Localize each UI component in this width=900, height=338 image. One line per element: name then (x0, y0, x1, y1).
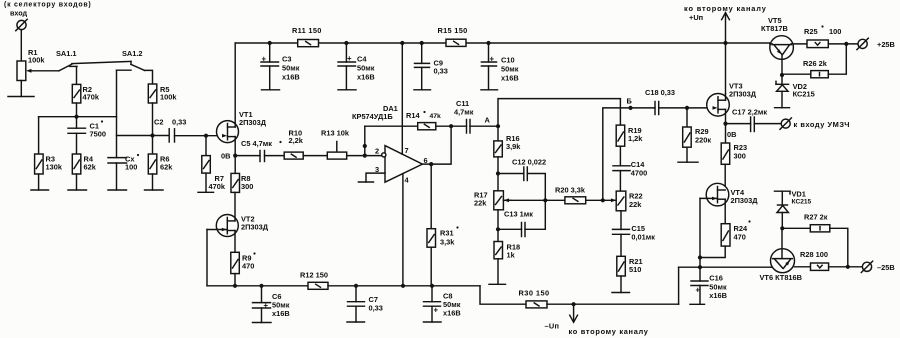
capacitor C6 50мк x16В (253, 286, 290, 323)
capacitor C10 50мк x16В (481, 43, 518, 90)
bus1 wire (39, 116, 117, 118)
svg-text:47k: 47k (430, 113, 442, 120)
svg-text:4,7мк: 4,7мк (454, 108, 474, 117)
ground below R6 (152, 174, 154, 190)
svg-text:0,01мк: 0,01мк (631, 233, 655, 242)
capacitor C11 4.7мк (451, 99, 498, 133)
svg-text:SA1.2: SA1.2 (122, 49, 143, 58)
svg-text:2П303Д: 2П303Д (239, 118, 267, 127)
wire pin3 to ground (366, 173, 385, 182)
svg-text:300: 300 (734, 152, 746, 161)
svg-text:3,9k: 3,9k (506, 142, 521, 151)
svg-text:C17 2,2мк: C17 2,2мк (732, 108, 767, 117)
svg-text:100: 100 (125, 163, 137, 172)
bus2 wire (117, 135, 169, 137)
ground above VD1 (775, 191, 791, 194)
svg-text:R25: R25 (804, 27, 818, 36)
wire SA1.1 contact to R2 (76, 66, 78, 84)
svg-text:к входу УМЗЧ: к входу УМЗЧ (794, 120, 850, 129)
lower rail step to -Uп (480, 286, 526, 304)
svg-text:22k: 22k (474, 199, 487, 208)
svg-text:C16: C16 (709, 274, 723, 283)
capacitor C18 0.33 (645, 88, 675, 115)
svg-text:х16В: х16В (282, 73, 300, 82)
capacitor C2 0.33 (154, 118, 186, 143)
capacitor C9 0.33 (415, 43, 448, 90)
capacitor C16 50мк x16В (691, 267, 727, 304)
svg-text:220к: 220к (695, 136, 711, 145)
resistor R2 470k (72, 84, 100, 103)
svg-text:62k: 62k (84, 163, 97, 172)
wiper line to R20 (509, 199, 565, 201)
svg-text:50мк: 50мк (282, 64, 300, 73)
svg-text:1,2k: 1,2k (628, 134, 643, 143)
svg-text:62k: 62k (160, 163, 173, 172)
op-amp DA1 КР574УД1Б (352, 104, 422, 182)
svg-text:470: 470 (242, 262, 254, 271)
capacitor C17 2.2мк (726, 108, 782, 132)
wire SA1.2 contact to R5 (145, 70, 153, 84)
wire R24 to rail stub (700, 246, 725, 257)
svg-text:100k: 100k (160, 93, 177, 102)
terminal +25В (857, 38, 895, 49)
svg-text:R31: R31 (440, 229, 454, 238)
svg-text:VT6 КТ816В: VT6 КТ816В (760, 273, 803, 282)
transistor VT5 КТ817В (761, 16, 807, 75)
resistor R12 150 (300, 271, 328, 290)
ground below C10 (481, 89, 498, 91)
wire R5 to bus2 (152, 103, 154, 136)
svg-text:+: + (434, 306, 439, 315)
arrow up to second channel / wire VT3 drain (722, 13, 730, 94)
resistor R26 2k (803, 59, 828, 78)
ground below C9 (414, 89, 431, 91)
svg-text:100k: 100k (28, 56, 45, 65)
capacitor C3 50мк x16В (261, 43, 300, 90)
junction R17/C13/R18 (497, 210, 499, 242)
svg-text:510: 510 (629, 265, 641, 274)
ground below R4 (76, 174, 78, 190)
transistor VT1 2П303Д (JFET) (217, 43, 267, 156)
capacitor C7 0.33 (348, 286, 383, 322)
svg-text:2П303Д: 2П303Д (241, 223, 269, 232)
svg-text:+: + (264, 301, 269, 310)
ground below C8 (424, 321, 442, 323)
transistor VT2 2П303Д (JFET) (207, 192, 269, 252)
node VD1/R27/VT6 base (780, 226, 784, 230)
svg-text:0,33: 0,33 (369, 304, 383, 313)
svg-text:0В: 0В (221, 152, 230, 161)
junction R16/R17/C12 (497, 157, 499, 191)
svg-text:ко второму каналу: ко второму каналу (569, 327, 649, 336)
svg-text:2,2k: 2,2k (289, 136, 304, 145)
top rail wire (235, 42, 298, 44)
svg-text:–25В: –25В (877, 263, 895, 272)
node 0В (VT3 source) (723, 122, 727, 126)
svg-text:R12 150: R12 150 (300, 271, 328, 280)
junction C1/R2 (74, 115, 78, 119)
svg-text:+25В: +25В (877, 40, 895, 49)
svg-text:C12 0,022: C12 0,022 (512, 158, 546, 167)
wire pin4 to lower rail (402, 174, 404, 286)
zener VD2 КС215 (776, 75, 815, 108)
resistor R21 510 (617, 256, 643, 276)
wire R2 to bus1 (76, 103, 78, 117)
ground below C3 (262, 89, 280, 91)
svg-text:R28 100: R28 100 (800, 250, 828, 259)
svg-text:R13 10k: R13 10k (321, 129, 350, 138)
capacitor C4 50мк x16В (338, 43, 375, 90)
svg-text:0,33: 0,33 (434, 67, 448, 76)
resistor R31 3.3k (427, 164, 459, 286)
svg-text:C3: C3 (282, 55, 291, 64)
junction R5/R6 on bus2 (150, 133, 154, 137)
svg-text:х16В: х16В (501, 74, 519, 83)
resistor R23 300 (721, 124, 747, 165)
svg-text:3,3k: 3,3k (440, 238, 455, 247)
node gate VT1 / R7 junction (204, 134, 208, 138)
resistor R14 47k (feedback) (365, 111, 451, 130)
svg-text:A: A (485, 116, 491, 125)
svg-text:VD1: VD1 (792, 190, 806, 199)
wire output (422, 126, 451, 164)
svg-text:C5 4,7мк: C5 4,7мк (241, 139, 272, 148)
ground below C7 (347, 321, 365, 323)
svg-text:R27 2к: R27 2к (804, 213, 828, 222)
terminal -25В (861, 261, 894, 272)
svg-text:C2: C2 (154, 118, 163, 127)
svg-text:22k: 22k (629, 200, 642, 209)
ground below C4 (338, 89, 356, 91)
svg-text:R15 150: R15 150 (438, 26, 468, 35)
wire node A up and over to R19 (498, 99, 620, 127)
ground below R1 (20, 81, 22, 97)
svg-text:7500: 7500 (90, 130, 106, 139)
svg-text:C18 0,33: C18 0,33 (645, 88, 675, 97)
switch SA1.1 (56, 49, 77, 71)
svg-text:R26 2k: R26 2k (803, 59, 828, 68)
ground below R7 (205, 173, 207, 192)
svg-text:КС215: КС215 (793, 90, 815, 99)
svg-text:SA1.1: SA1.1 (56, 49, 77, 58)
svg-text:x16В: x16В (443, 309, 461, 318)
zener VD1 КС215 (777, 190, 812, 229)
pin 2 bubble (382, 153, 386, 157)
wire VT2 gate down to rail (206, 230, 208, 286)
ground below VD2 (775, 107, 790, 109)
svg-text:0В: 0В (727, 130, 736, 139)
svg-text:2: 2 (375, 147, 379, 156)
svg-text:+Uп: +Uп (689, 13, 703, 22)
resistor R3 130k (35, 154, 63, 174)
resistor R18 1k (494, 242, 520, 260)
svg-text:50мк: 50мк (357, 64, 375, 73)
ground below C6 (253, 322, 272, 324)
svg-text:50мк: 50мк (501, 65, 519, 74)
wire R23 to VT4 drain (724, 164, 726, 190)
wire R25 to +25В (828, 43, 858, 45)
resistor R27 2k (782, 213, 830, 232)
svg-text:КС215: КС215 (792, 199, 812, 206)
svg-text:R30 150: R30 150 (519, 289, 550, 298)
potentiometer R22 22k (616, 191, 642, 211)
capacitor C13 1мк (498, 200, 545, 236)
rail C16/VT6 (678, 267, 680, 304)
lower rail wire (207, 285, 308, 287)
wire C18 to VT3 gate (659, 107, 708, 109)
ground below C16 (690, 303, 705, 305)
junction feedback node (363, 154, 367, 158)
ground below R29 (686, 147, 688, 162)
wire R27 to -25В node (830, 228, 848, 266)
wire R9 to lower rail (234, 274, 236, 286)
capacitor C12 0.022 (498, 158, 546, 201)
svg-text:130k: 130k (46, 163, 63, 172)
resistor R28 100 (800, 250, 829, 270)
ground below R18 (497, 259, 499, 285)
svg-text:470k: 470k (209, 182, 226, 191)
svg-text:470k: 470k (83, 93, 100, 102)
svg-text:Б: Б (627, 97, 633, 106)
ground below R3 (38, 174, 40, 190)
capacitor C1 7500 (68, 117, 106, 139)
resistor R1 100k (potentiometer) (17, 48, 59, 81)
wire SA1.2 contact down (to bus1/bus2/Cx) (116, 70, 118, 157)
rail to -Uп node (547, 303, 679, 305)
capacitor C14 4700 (613, 146, 647, 191)
svg-text:вход: вход (10, 9, 28, 18)
resistor R20 3.3k (555, 186, 586, 204)
svg-text:C10: C10 (501, 56, 515, 65)
resistor R5 100k (148, 84, 177, 103)
svg-text:2П303Д: 2П303Д (729, 90, 757, 99)
svg-text:300: 300 (241, 182, 253, 191)
svg-text:7: 7 (405, 146, 409, 155)
svg-text:100: 100 (829, 27, 841, 36)
capacitor C8 50мк x16В (424, 286, 461, 322)
capacitor C15 0.01мк (613, 211, 656, 256)
wire R20 to R22 wiper (586, 199, 617, 201)
potentiometer R17 22k (474, 191, 511, 210)
resistor R4 62k (72, 133, 96, 174)
svg-text:x16В: x16В (709, 291, 727, 300)
resistor R8 300 (231, 156, 253, 193)
svg-text:4700: 4700 (631, 169, 647, 178)
svg-text:C4: C4 (357, 55, 367, 64)
svg-text:C13 1мк: C13 1мк (504, 210, 533, 219)
resistor R16 3.9k (494, 126, 521, 157)
svg-text:КТ817В: КТ817В (761, 24, 788, 33)
transistor VT4 2П303Д (JFET) (700, 183, 758, 223)
wire C2 to VT1 gate (175, 135, 227, 137)
wire SA1.1 to SA1.2 (72, 61, 131, 63)
ground below R21 (620, 276, 622, 293)
svg-text:х16В: х16В (272, 309, 290, 318)
wire feedback vertical (364, 126, 366, 155)
resistor R6 62k (148, 136, 173, 175)
svg-text:х16В: х16В (357, 73, 375, 82)
terminal к входу УМЗЧ (780, 118, 850, 129)
wire R13 to op-amp pin2 (347, 155, 382, 157)
wire input to R1 (20, 30, 22, 61)
svg-text:1k: 1k (507, 251, 516, 260)
ground pin3 (358, 181, 373, 183)
resistor R19 1.2k (616, 125, 643, 146)
ground below Cx (108, 189, 127, 191)
svg-text:R11 150: R11 150 (292, 26, 322, 35)
transistor VT6 КТ816В (760, 228, 811, 282)
input terminal (16, 19, 27, 30)
svg-text:R20 3,3k: R20 3,3k (555, 186, 586, 195)
svg-text:–Uп: –Uп (545, 322, 560, 331)
resistor R15 150 (438, 26, 468, 46)
resistor R9 470 (231, 252, 256, 273)
lower rail continues (328, 285, 480, 287)
capacitor C5 4.7мк (235, 139, 281, 162)
svg-text:470: 470 (734, 233, 746, 242)
resistor R13 10k (303, 129, 350, 160)
svg-text:2П303Д: 2П303Д (731, 196, 759, 205)
resistor R25 100 (804, 25, 841, 47)
wire pin7 to top rail (401, 43, 403, 154)
switch SA1.2 (117, 49, 145, 70)
wire R26 loop (828, 44, 846, 74)
svg-text:0,33: 0,33 (172, 118, 186, 127)
transistor VT3 2П303Д (JFET) (707, 82, 757, 124)
wire bus1 to R3 (38, 117, 40, 154)
svg-text:(к селектору входов): (к селектору входов) (4, 2, 92, 9)
resistor R30 150 (519, 289, 550, 308)
resistor R7 470k (202, 136, 226, 191)
wire R28 to -25В terminal (829, 266, 863, 268)
resistor R10 2.2k (265, 129, 304, 160)
resistor R11 150 (292, 26, 322, 47)
wire R20 node up to Б line (603, 108, 655, 200)
resistor R24 470 (721, 220, 750, 246)
resistor R29 220к (683, 108, 712, 147)
svg-text:R14: R14 (406, 111, 420, 120)
svg-text:КР574УД1Б: КР574УД1Б (352, 112, 393, 121)
capacitor Cx 100 (108, 154, 139, 190)
arrow to second channel (-Uп) (570, 304, 578, 322)
wire VT4 gate down (699, 198, 701, 267)
